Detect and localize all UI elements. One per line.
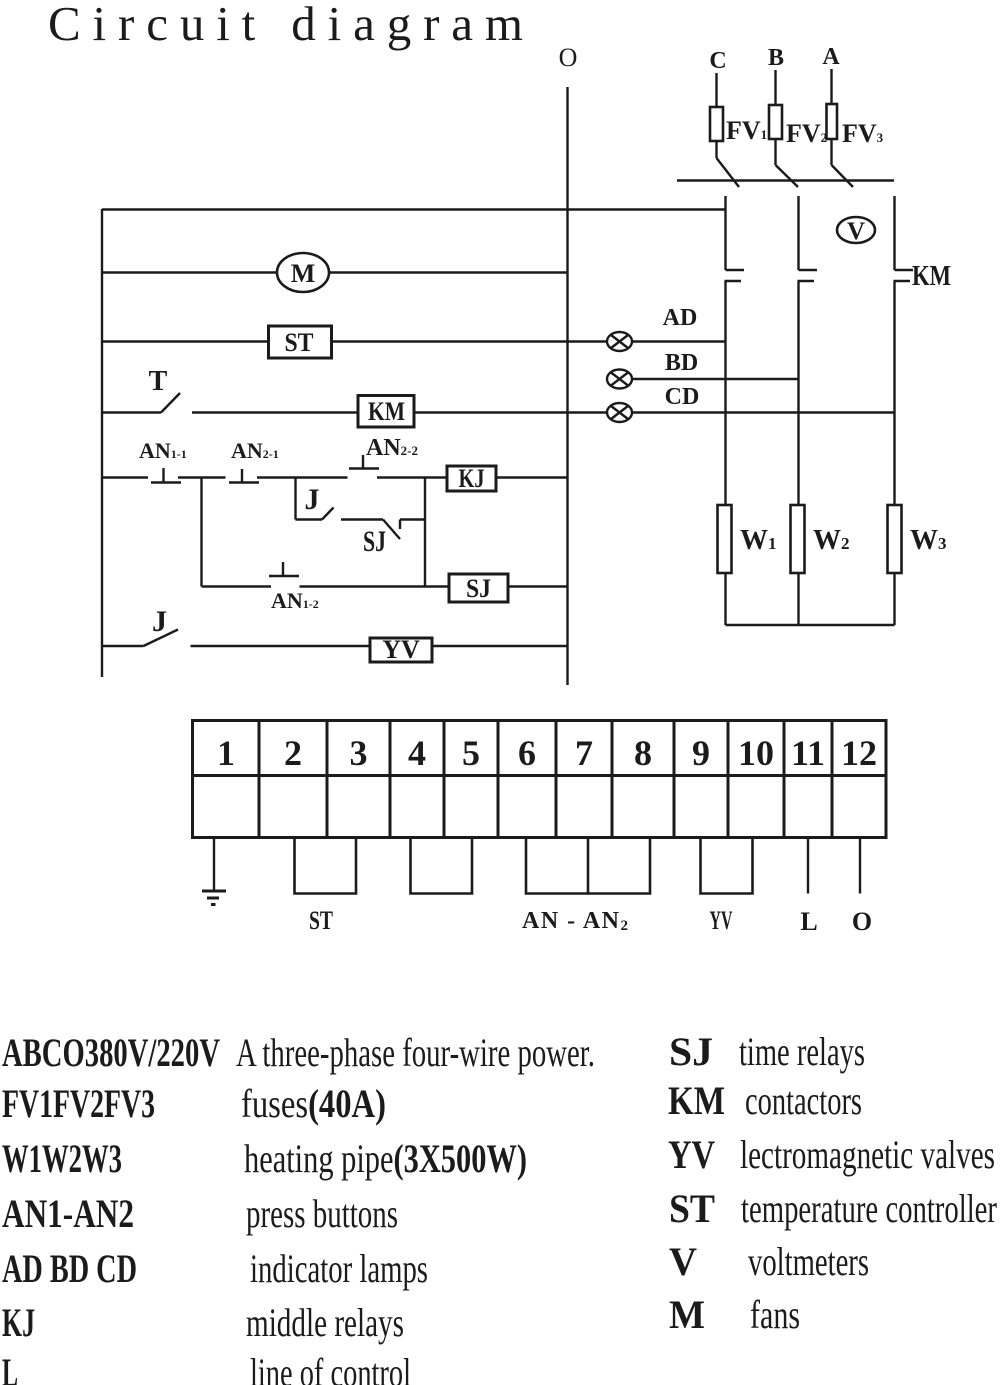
fuse FV3: [827, 104, 838, 165]
svg-text:L: L: [2, 1350, 18, 1385]
terminal strip divider 8: [673, 721, 676, 838]
switch blade phase A: [832, 165, 854, 187]
terminal strip divider 1: [258, 721, 261, 838]
contactor KM main contact C: [725, 270, 745, 281]
svg-text:3: 3: [350, 733, 368, 773]
time relay coil SJ: [449, 574, 508, 603]
svg-text:2: 2: [284, 733, 302, 773]
wire J2 to YV coil: [191, 645, 371, 647]
svg-text:1: 1: [217, 733, 235, 773]
wire phase A vertical upper: [893, 196, 895, 270]
svg-text:FV1FV2FV3: FV1FV2FV3: [2, 1081, 155, 1126]
terminal strip divider 7: [611, 721, 614, 838]
wire YV row from rail: [102, 645, 144, 647]
svg-text:W1W2W3: W1W2W3: [2, 1136, 122, 1181]
wire CD lamp to phase A: [632, 411, 895, 413]
svg-text:KJ: KJ: [2, 1300, 35, 1345]
terminal strip divider 9: [727, 721, 730, 838]
svg-text:KJ: KJ: [459, 464, 485, 493]
wire phase B vertical upper: [797, 196, 799, 270]
terminal strip divider 4: [443, 721, 446, 838]
svg-text:8: 8: [634, 733, 652, 773]
svg-text:ST: ST: [285, 328, 314, 357]
wire junction drop mid: [294, 478, 296, 520]
svg-text:YV: YV: [668, 1132, 715, 1177]
wire W3 to bus: [893, 573, 895, 625]
wire phase A drop: [830, 69, 832, 104]
svg-text:C: C: [709, 48, 726, 74]
wire KM coil to CD lamp: [416, 411, 608, 413]
relay contact J2: [144, 630, 179, 647]
wire M row right: [329, 271, 568, 273]
svg-text:A: A: [822, 44, 840, 70]
svg-text:O: O: [559, 43, 578, 72]
wire AN2-2 to KJ coil: [377, 476, 447, 478]
wire W2 to bus: [797, 573, 799, 625]
push button AN1-1: [151, 468, 181, 483]
wire M row left: [102, 271, 277, 273]
contactor KM main contact A: [894, 270, 914, 281]
jumper terminals 4-5: [411, 838, 473, 894]
terminal strip divider 10: [783, 721, 786, 838]
wire AN2-1 to AN2-2: [257, 476, 348, 478]
svg-text:line of control: line of control: [250, 1350, 411, 1385]
svg-text:T: T: [149, 366, 168, 397]
wire KJ coil to O line: [496, 476, 568, 478]
heater W1: [718, 505, 732, 573]
push button AN1-2: [269, 562, 299, 576]
svg-text:fuses(40A): fuses(40A): [241, 1081, 386, 1126]
wire BD lamp to phase B: [632, 378, 799, 380]
svg-text:SJ: SJ: [466, 574, 491, 603]
svg-text:ST: ST: [669, 1186, 715, 1231]
wire junction drop left: [200, 478, 202, 587]
svg-text:7: 7: [575, 733, 593, 773]
svg-text:heating pipe(3X500W): heating pipe(3X500W): [244, 1136, 527, 1181]
wire phase B drop: [774, 70, 776, 105]
svg-text:contactors: contactors: [745, 1078, 862, 1123]
svg-text:CD: CD: [665, 384, 700, 410]
wire phase C vertical upper: [724, 196, 726, 270]
terminal strip frame: [193, 721, 887, 838]
wire AD lamp to phase C: [632, 340, 726, 342]
terminal strip divider 6: [555, 721, 558, 838]
push button AN2-2: [349, 455, 379, 469]
solenoid coil YV: [370, 635, 432, 664]
svg-text:AD BD CD: AD BD CD: [2, 1246, 137, 1291]
svg-text:AD: AD: [663, 305, 698, 331]
svg-text:W3: W3: [910, 525, 947, 556]
svg-text:KM: KM: [668, 1078, 725, 1123]
switch blade phase C: [717, 158, 740, 187]
svg-text:SJ: SJ: [669, 1029, 713, 1074]
wire O neutral line: [566, 87, 568, 685]
wire J to SJ contact: [341, 518, 383, 520]
jumper YV: [701, 838, 753, 894]
indicator lamp AD: [607, 332, 632, 351]
svg-text:FV3: FV3: [842, 119, 884, 148]
svg-text:YV: YV: [710, 906, 733, 935]
svg-text:BD: BD: [665, 350, 698, 376]
wire ST to AD lamp: [332, 340, 608, 342]
svg-text:6: 6: [518, 733, 536, 773]
contactor coil KM: [358, 396, 414, 428]
svg-text:Circuit diagram: Circuit diagram: [48, 0, 523, 51]
svg-text:W2: W2: [813, 525, 850, 556]
svg-text:10: 10: [738, 733, 774, 773]
svg-text:M: M: [291, 259, 316, 288]
svg-text:9: 9: [692, 733, 710, 773]
fan M: [277, 253, 329, 292]
fuse FV1: [710, 107, 723, 158]
indicator lamp BD: [607, 370, 632, 389]
wire heater bottom bus: [726, 624, 895, 626]
jumper AN 6-7: [526, 838, 588, 894]
jumper ST: [295, 838, 357, 894]
svg-text:ST: ST: [309, 906, 333, 935]
heater W2: [791, 505, 805, 573]
svg-text:indicator lamps: indicator lamps: [250, 1246, 428, 1291]
svg-text:AN2-2: AN2-2: [366, 435, 418, 461]
relay contact J: [296, 508, 334, 520]
svg-text:FV2: FV2: [786, 119, 827, 148]
contactor KM main contact B: [798, 270, 818, 281]
wire phase C vertical lower: [724, 281, 726, 505]
svg-text:KM: KM: [912, 261, 951, 292]
svg-text:O: O: [852, 907, 872, 936]
wire T to KM coil: [192, 411, 358, 413]
svg-text:W1: W1: [740, 525, 777, 556]
svg-text:AN2-1: AN2-1: [231, 438, 279, 463]
wire terminal 11 L: [807, 838, 809, 894]
svg-text:J: J: [152, 605, 167, 638]
svg-text:V: V: [669, 1239, 697, 1284]
wire junction drop right: [424, 478, 426, 587]
svg-text:J: J: [305, 483, 320, 516]
svg-text:A three-phase four-wire power.: A three-phase four-wire power.: [236, 1030, 595, 1075]
wire YV coil to O line: [432, 645, 568, 647]
svg-text:ABCO380V/220V: ABCO380V/220V: [2, 1030, 220, 1075]
relay coil KJ: [447, 464, 496, 493]
svg-text:AN1-AN2: AN1-AN2: [2, 1191, 134, 1236]
terminal strip divider 3: [389, 721, 392, 838]
wire left rail: [101, 209, 103, 677]
wire SJ row left: [202, 585, 272, 587]
ground symbol: [202, 838, 226, 905]
thermostat contact T: [161, 393, 180, 413]
svg-text:KM: KM: [368, 397, 405, 426]
svg-text:time relays: time relays: [739, 1029, 865, 1074]
wire ST row left: [102, 340, 269, 342]
svg-text:5: 5: [462, 733, 480, 773]
switch bar: [677, 179, 894, 181]
terminal strip divider 5: [497, 721, 500, 838]
svg-text:M: M: [669, 1292, 705, 1337]
svg-text:V: V: [847, 218, 865, 245]
temperature controller ST: [269, 326, 332, 358]
svg-text:SJ: SJ: [363, 525, 386, 558]
time relay contact SJ: [383, 520, 425, 540]
wire KM row left: [102, 411, 161, 413]
svg-text:middle relays: middle relays: [246, 1300, 404, 1345]
svg-text:11: 11: [791, 733, 825, 773]
fuse FV2: [769, 105, 782, 165]
push button AN2-1: [229, 469, 259, 483]
heater W3: [888, 505, 902, 573]
svg-text:L: L: [800, 907, 817, 936]
svg-text:4: 4: [408, 733, 426, 773]
svg-text:AN1-1: AN1-1: [139, 438, 187, 463]
wire AN1-1 to AN2-1: [178, 476, 226, 478]
svg-text:temperature controller: temperature controller: [741, 1186, 997, 1231]
terminal strip divider 11: [831, 721, 834, 838]
wire AN1-2 to SJ coil: [300, 585, 450, 587]
wire phase B vertical lower: [797, 281, 799, 505]
svg-text:lectromagnetic valves: lectromagnetic valves: [740, 1132, 995, 1177]
svg-text:YV: YV: [382, 635, 420, 664]
terminal strip divider 2: [326, 721, 329, 838]
voltmeter V: [837, 217, 875, 245]
terminal strip mid line: [193, 774, 887, 777]
switch blade phase B: [776, 165, 799, 187]
wire phase C drop: [715, 73, 717, 107]
svg-text:B: B: [768, 45, 784, 71]
svg-text:AN1-2: AN1-2: [271, 588, 319, 613]
svg-text:AN - AN2: AN - AN2: [522, 908, 628, 934]
wire SJ coil to O line: [508, 585, 568, 587]
svg-text:voltmeters: voltmeters: [748, 1239, 869, 1284]
wire KJ row from rail: [102, 476, 148, 478]
jumper AN 7-8: [588, 838, 650, 894]
svg-text:12: 12: [841, 733, 877, 773]
wire W1 to bus: [724, 573, 726, 625]
svg-text:FV1: FV1: [726, 116, 767, 145]
svg-text:fans: fans: [750, 1292, 800, 1337]
indicator lamp CD: [607, 403, 632, 422]
wire top rail: [102, 208, 726, 210]
wire terminal 12 O: [859, 838, 861, 894]
svg-text:press buttons: press buttons: [246, 1191, 398, 1236]
wire phase A vertical lower: [893, 281, 895, 505]
